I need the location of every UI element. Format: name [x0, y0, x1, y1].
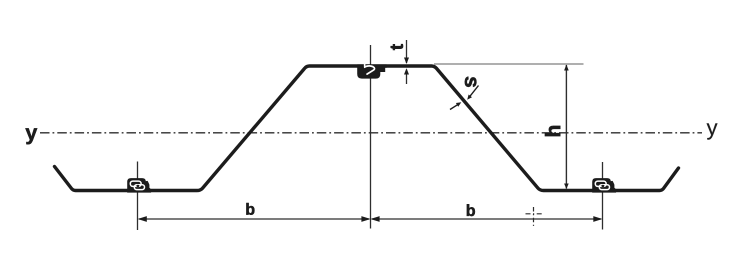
- node h label: [545, 126, 560, 136]
- dimension b left: [138, 216, 371, 222]
- wire: extension line center vertical: [370, 45, 372, 229]
- dimension h (profile height): [434, 64, 584, 189]
- node b label right: [467, 204, 475, 216]
- node small dash-dot cross on right b line: [526, 207, 543, 227]
- dimension b right: [370, 216, 602, 222]
- node s label: [465, 77, 477, 88]
- interlock bottom-right (hook on trough): [592, 178, 616, 193]
- node y label left: [25, 128, 37, 144]
- node b label left: [246, 203, 254, 215]
- wire: extension line right trough: [602, 162, 604, 230]
- interlock top (recessed hook in crest): [357, 63, 386, 79]
- wire: extension line left trough: [137, 162, 139, 231]
- centerline y-y: [40, 132, 702, 134]
- wire: sheet profile outline: [55, 66, 679, 191]
- interlock bottom-left (hook on trough): [127, 178, 151, 193]
- dimension t (crest plate thickness): [404, 40, 409, 84]
- node t label: [391, 44, 403, 50]
- node y label right: [707, 123, 718, 139]
- dimension s (web thickness): [450, 86, 479, 110]
